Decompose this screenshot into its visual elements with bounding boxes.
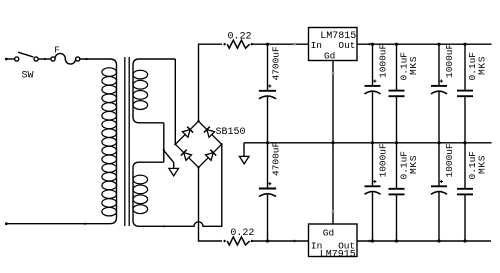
wire C3 to gnd [371,92,374,144]
wire primary bottom return [5,222,110,225]
label C10 0.1uF [467,151,487,180]
svg-text:MKS: MKS [476,155,487,174]
transformer T1 secondary upper winding [133,59,175,123]
resistor R2 0.22 [223,237,253,245]
resistor R1 0.22 [223,40,253,48]
diode D2 (bridge top-right) [204,127,215,138]
label C8 0.1uF [399,151,419,180]
wire C9 to -rail [437,192,440,242]
capacitor C7 1000uF [365,180,381,194]
transformer core [125,57,129,226]
pin dots U1 [293,43,371,46]
svg-text:In: In [311,40,322,51]
wire col2 mid [396,143,398,189]
svg-text:Out: Out [338,40,355,51]
svg-text:4700uF: 4700uF [270,141,281,176]
svg-text:Gd: Gd [323,227,334,238]
svg-text:MKS: MKS [408,155,419,174]
capacitor C1 4700uF [259,84,276,98]
capacitor C5 1000uF [431,80,447,94]
wire C1 to ground rail [267,97,269,143]
svg-text:LM7915: LM7915 [320,249,356,260]
wire +raw down to C1 [267,44,269,91]
wire col3 top [437,43,440,86]
wire secondary bottom to bridge [139,144,222,227]
wire R1 to U1 In [252,43,309,45]
svg-text:Gd: Gd [324,50,335,61]
node AC input top terminal [5,58,15,61]
wire col1 mid [372,143,374,187]
wire bridge positive up [199,44,223,121]
wire +15V rail [357,43,492,45]
label C7 1000uF [377,143,388,178]
diode D1 (bridge top-left) [182,127,193,138]
wire col2 top [395,43,398,91]
label C5 1000uF [444,43,455,78]
wire C8 to -rail [395,194,398,242]
wire col4 top [463,43,466,91]
bridge rectifier SB150 body [175,121,221,167]
svg-text:1000uF: 1000uF [444,143,455,178]
svg-text:1000uF: 1000uF [377,43,388,78]
pin dots U2 [293,240,371,243]
wire ground rail [244,142,492,144]
label R1 0.22 [228,31,252,42]
svg-text:4700uF: 4700uF [270,46,281,81]
svg-text:MKS: MKS [476,56,487,75]
svg-text:SW: SW [22,71,34,82]
wire C7 to -rail [371,192,374,242]
wire U2 Gd pin [332,143,335,224]
junction C2--raw [266,239,269,242]
label R2 0.22 [230,228,254,239]
capacitor C3 1000uF [365,80,381,94]
transformer T1 primary winding [102,59,117,224]
wire switch-fuse [38,58,51,60]
wire center tap [163,123,165,162]
op-amp U1 LM7815 [309,28,358,62]
label C4 0.1uF [399,52,419,81]
wire C5 to gnd [437,92,440,144]
op-amp U2 LM7915 [309,224,358,260]
svg-text:1000uF: 1000uF [444,43,455,78]
capacitor C4 0.1uF [389,91,405,97]
svg-text:1000uF: 1000uF [377,143,388,178]
wire col4 mid [464,143,466,189]
wire C10 to -rail [463,194,466,242]
junction bridge corners [174,120,223,169]
capacitor C9 1000uF [431,180,447,194]
svg-text:0.22: 0.22 [230,228,254,239]
label C2 4700uF [270,141,281,176]
wire R2 to U2 In [252,240,309,242]
svg-text:SB150: SB150 [216,127,246,138]
wire U1 Gd pin [331,61,334,145]
capacitor C8 0.1uF [389,189,405,195]
capacitor C6 0.1uF [457,91,473,97]
capacitor C2 4700uF [259,182,276,196]
wire C2 to -raw [267,195,269,241]
transformer T1 secondary lower winding [133,162,164,226]
wire bridge negative down [199,167,223,241]
wire gnd to C2 [267,143,269,189]
junction node +raw [266,43,269,46]
wire col1 top [371,43,374,86]
ground [169,168,179,176]
wire C6 to gnd [463,96,466,144]
wire col3 mid [438,143,440,187]
wire -15V rail [357,240,491,242]
junction C1-gnd [266,141,269,144]
svg-text:MKS: MKS [408,56,419,75]
wire ground stem 2 [243,143,245,157]
fuse F [51,45,80,64]
svg-text:F: F [54,45,59,55]
label C9 1000uF [444,143,455,178]
diode D4 (bridge bottom-right) [206,150,217,161]
label SB150 [216,127,246,138]
switch SW [15,52,39,81]
capacitor C10 0.1uF [457,189,473,195]
wire ground stem [164,150,174,168]
ground 2 [239,156,249,164]
wire C4 to gnd [395,96,398,144]
diode D3 (bridge bottom-left) [181,150,192,161]
label C6 0.1uF [467,52,487,81]
label C3 1000uF [377,43,388,78]
label C1 4700uF [270,46,281,81]
svg-text:0.22: 0.22 [228,31,252,42]
wire secondary top to bridge [174,59,176,144]
wire fuse-primary [80,58,110,60]
